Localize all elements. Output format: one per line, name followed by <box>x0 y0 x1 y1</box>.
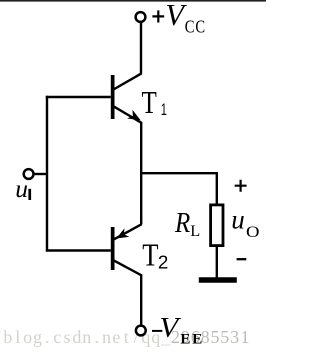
wire output node to T2 emitter <box>140 173 142 225</box>
wire input stub <box>34 173 49 175</box>
resistor RL <box>211 205 223 246</box>
svg-text:2: 2 <box>158 251 168 272</box>
label + output polarity <box>235 180 247 192</box>
svg-text:L: L <box>190 221 200 240</box>
svg-text:R: R <box>174 206 191 238</box>
wire T2 collector to VEE <box>140 274 142 326</box>
wire T1 emitter to output node <box>140 122 142 174</box>
ground <box>199 277 237 283</box>
transistor T2 <box>111 224 142 275</box>
input terminal ui <box>24 169 34 179</box>
terminal -VEE <box>136 326 146 336</box>
top edge artifact line <box>0 0 266 2</box>
wire T2 base lead <box>46 249 111 251</box>
svg-text:EE: EE <box>180 332 204 348</box>
svg-text:V: V <box>159 313 181 343</box>
terminal +VCC <box>136 12 146 22</box>
label +VCC plus sign <box>152 10 164 22</box>
svg-text:u: u <box>231 205 245 235</box>
wire RL to ground <box>216 247 218 279</box>
svg-text:CC: CC <box>185 17 206 37</box>
label -VEE minus sign <box>152 330 162 332</box>
transistor T1 <box>111 73 142 123</box>
svg-text:T: T <box>142 86 157 120</box>
wire T1 base lead <box>46 96 111 98</box>
wire VCC to T1 collector <box>140 22 142 74</box>
svg-text:u: u <box>15 174 28 203</box>
svg-text:O: O <box>246 222 260 240</box>
label ui subscript bar <box>28 189 31 200</box>
svg-text:T: T <box>142 239 158 274</box>
svg-text:1: 1 <box>161 101 167 120</box>
wire output node to RL <box>140 173 217 204</box>
label - output polarity <box>237 258 247 260</box>
wire left bus <box>46 96 48 251</box>
